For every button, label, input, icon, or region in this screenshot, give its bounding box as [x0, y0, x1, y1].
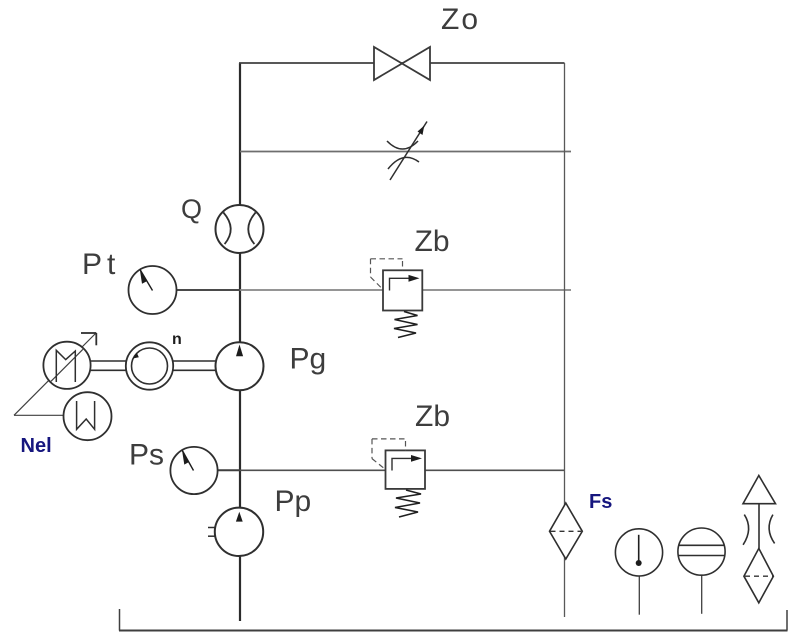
- svg-text:Pg: Pg: [290, 343, 327, 376]
- svg-text:Zo: Zo: [441, 3, 480, 36]
- svg-text:Fs: Fs: [589, 491, 612, 513]
- svg-text:Pp: Pp: [275, 485, 312, 518]
- svg-text:Zb: Zb: [415, 225, 450, 258]
- svg-text:Q: Q: [181, 194, 202, 224]
- svg-text:Ps: Ps: [129, 439, 164, 472]
- svg-text:Zb: Zb: [415, 400, 450, 433]
- svg-text:Pt: Pt: [82, 248, 120, 281]
- svg-text:n: n: [172, 331, 182, 348]
- svg-text:Nel: Nel: [21, 435, 52, 457]
